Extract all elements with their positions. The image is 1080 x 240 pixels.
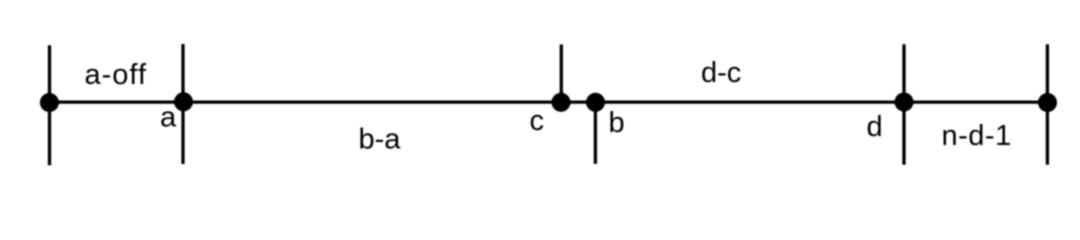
svg-text:b-a: b-a — [359, 124, 402, 156]
node c junction dot — [552, 93, 571, 112]
svg-text:d-c: d-c — [701, 57, 741, 89]
node: right boundary junction dot — [1038, 93, 1057, 112]
svg-text:c: c — [530, 105, 545, 137]
wire: main horizontal line — [48, 100, 1048, 103]
wire: left boundary tick — [48, 45, 51, 165]
node a junction dot — [174, 92, 193, 111]
wire: upper tick at node c — [560, 45, 563, 103]
svg-text:b: b — [609, 107, 625, 139]
node b junction dot — [586, 93, 605, 112]
svg-text:a-off: a-off — [85, 59, 148, 91]
svg-text:n-d-1: n-d-1 — [942, 120, 1012, 152]
wire: tick at node a — [181, 44, 184, 164]
svg-text:a: a — [160, 101, 177, 133]
wire: lower tick at node b — [594, 102, 597, 164]
node d junction dot — [895, 93, 914, 112]
wire: tick at node d — [902, 44, 905, 165]
svg-text:d: d — [867, 111, 883, 143]
node: left boundary junction dot — [40, 93, 59, 112]
wire: right boundary tick — [1046, 44, 1049, 165]
